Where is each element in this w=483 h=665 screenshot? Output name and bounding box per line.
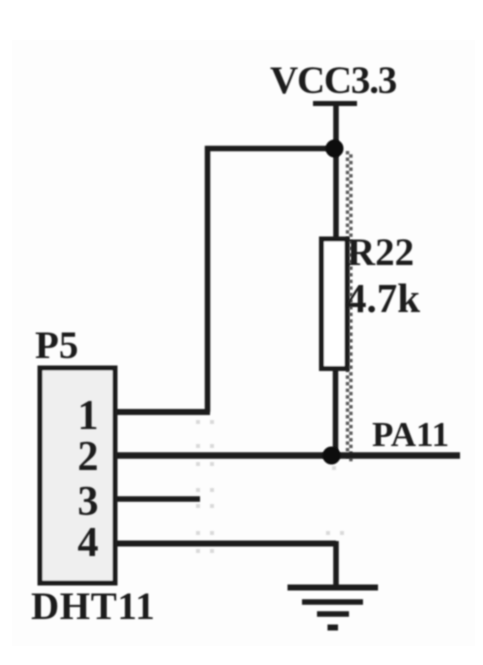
svg-text:PA11: PA11 [372,415,449,454]
svg-text:4: 4 [78,520,99,566]
svg-text:VCC3.3: VCC3.3 [270,59,397,102]
svg-text:3: 3 [78,479,99,525]
svg-text:P5: P5 [35,324,78,367]
svg-text:R22: R22 [347,231,414,274]
svg-text:1: 1 [78,393,99,439]
svg-text:4.7k: 4.7k [346,275,420,321]
svg-text:DHT11: DHT11 [31,585,155,628]
svg-text:2: 2 [78,434,99,480]
